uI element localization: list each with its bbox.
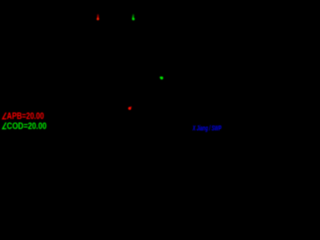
point C (green streak, top) (132, 14, 135, 20)
svg-text:X Jiang / SWP: X Jiang / SWP (192, 123, 222, 132)
angle symbol (3, 123, 7, 129)
svg-text:COD=20.00: COD=20.00 (7, 121, 47, 131)
point P (red streak, top) (97, 14, 100, 20)
angle symbol (3, 113, 7, 119)
measurement: angle APB = 20.00 (red) (3, 111, 44, 121)
watermark (blue italic, bottom right) (192, 123, 222, 132)
point D (green dot, right middle) (160, 77, 163, 80)
measurement: angle COD = 20.00 (green) (3, 121, 47, 131)
point B (red dot, bottom middle) (128, 106, 132, 110)
svg-text:APB=20.00: APB=20.00 (7, 111, 44, 121)
